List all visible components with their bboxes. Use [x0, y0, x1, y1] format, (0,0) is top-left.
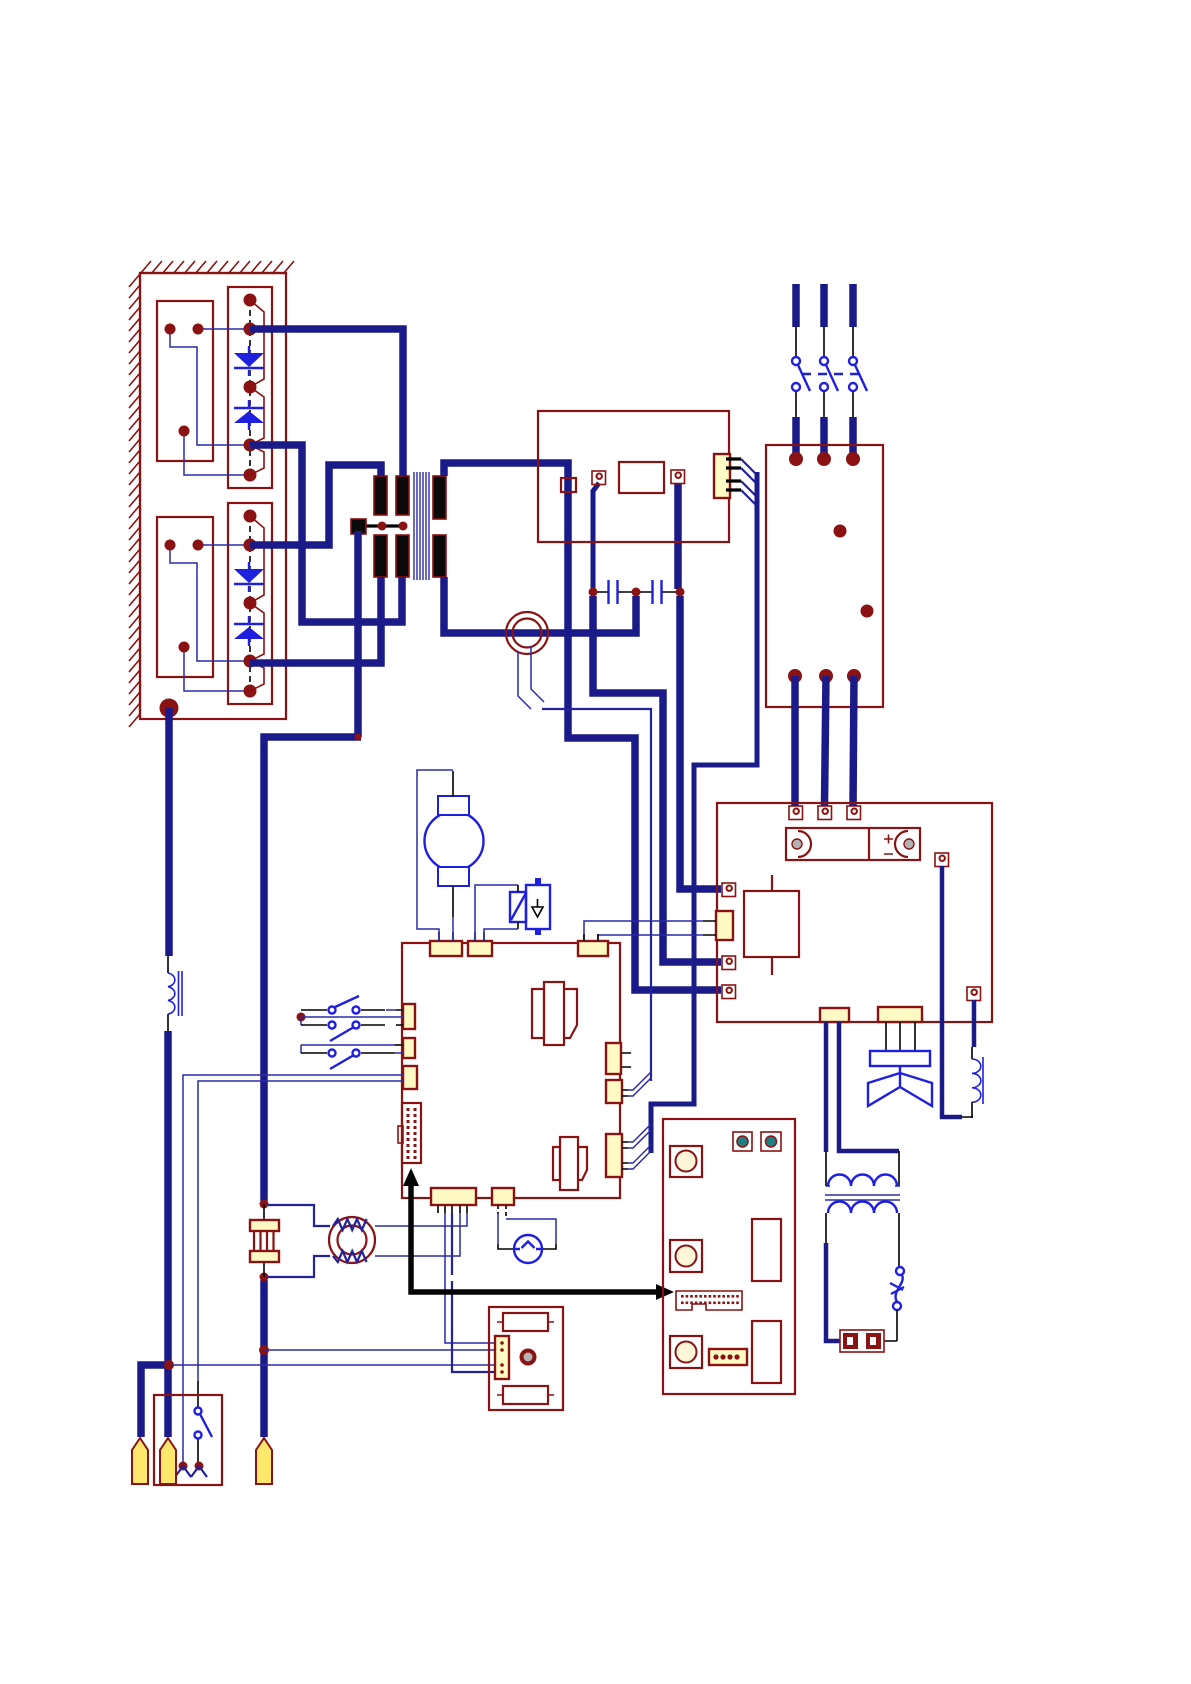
terminal lug 1	[132, 1438, 148, 1484]
A5 ribbon header	[676, 1291, 742, 1310]
Q1 linkage dashed	[802, 373, 866, 375]
button B2	[670, 1240, 702, 1272]
wire cap right down to P1	[680, 596, 721, 889]
A4 bottom component	[503, 1386, 548, 1404]
A2 bottom connector PB1	[820, 1008, 849, 1022]
A3 top connector T1	[430, 941, 462, 956]
fan wires from PB2	[886, 1022, 915, 1051]
wire from pin P in control box down	[593, 483, 599, 589]
A2 left connector	[716, 911, 733, 940]
wire assembly1 to primary w2 bottom	[250, 445, 402, 622]
A3 left connector L2	[403, 1038, 415, 1058]
capacitor C2	[653, 580, 662, 604]
wire assembly2 to primary w1 top	[250, 465, 381, 545]
A3 bottom connector B2	[492, 1188, 514, 1205]
A3 crystal component X1	[532, 982, 577, 1045]
T2 secondary coil	[828, 1202, 897, 1214]
A3 left connector L1	[403, 1004, 415, 1029]
wire second pin down	[674, 483, 682, 589]
K1 top terminals	[789, 452, 803, 466]
T2 core	[825, 1195, 900, 1200]
level sensor S1	[510, 892, 526, 922]
wire secondary top to control box and down	[444, 463, 721, 990]
plus minus labels	[884, 835, 893, 855]
pump motor M1	[425, 812, 484, 871]
lamp wires	[498, 1214, 556, 1244]
thermal switch S5	[896, 1267, 904, 1275]
A3 left connector L3	[403, 1066, 417, 1089]
terminal lug 3	[256, 1438, 272, 1484]
plug contacts	[179, 1462, 188, 1471]
thyristor module box 2 left	[157, 517, 213, 677]
A2 left pin P3	[722, 985, 736, 999]
thyristor module box 1 right	[228, 287, 272, 488]
A4 connector	[495, 1336, 509, 1379]
module 1 terminals dots	[165, 324, 176, 335]
bridge rectifier module	[786, 828, 920, 860]
A3 ribbon header	[402, 1103, 421, 1163]
wire cap left down to P2	[593, 596, 721, 962]
capacitor C1	[609, 580, 618, 604]
wire branch to terminal lug 1	[141, 1365, 172, 1437]
wire assembly2 to primary w1 bottom	[250, 577, 381, 663]
buzzer/lamp H1	[514, 1235, 542, 1263]
inductor L1	[167, 955, 169, 1031]
A2 right pin P4	[935, 853, 949, 867]
button B3	[670, 1336, 702, 1368]
switch S3 row2	[301, 1024, 403, 1026]
LED2	[761, 1132, 781, 1151]
L2 loop wires	[942, 866, 962, 1117]
Q1 pole x=796	[792, 284, 800, 327]
diode D2a	[248, 562, 250, 569]
black cathode line 2	[249, 516, 251, 691]
operator panel A5	[663, 1119, 795, 1394]
diode D1b	[248, 400, 250, 407]
thyristor module box 2 right	[228, 503, 272, 704]
transformer T1 primary bars	[374, 476, 387, 515]
central board A3	[402, 943, 620, 1198]
line filter F2	[250, 1220, 279, 1231]
current transformer CT rings	[506, 612, 548, 654]
harness bundle to operator panel	[651, 472, 757, 1153]
A5 display rect2	[752, 1321, 781, 1383]
transformer T1 centre tap bar	[358, 524, 403, 527]
LED1	[733, 1132, 752, 1151]
transformer T2 primary coil	[828, 1175, 897, 1187]
wire blue links 1	[170, 329, 250, 475]
M1 wires	[452, 771, 454, 917]
A5 display rect1	[752, 1219, 781, 1281]
A2 left pin P1	[722, 883, 736, 897]
wire blue links 2	[170, 545, 250, 691]
inner relay rect	[619, 462, 664, 493]
sensor board A4	[489, 1307, 563, 1410]
Q1 pole x=853	[849, 284, 857, 327]
A3 top connector TR	[578, 941, 608, 956]
A4 top component	[503, 1313, 548, 1331]
K1 bottom terminals	[788, 669, 802, 683]
wires B1 to heater	[375, 1213, 467, 1256]
capacitor chain black link	[593, 591, 680, 593]
door switch box	[154, 1395, 222, 1485]
door switch S6	[195, 1408, 202, 1415]
switch S4 row3	[301, 1052, 395, 1054]
CN harness fan-out	[741, 459, 757, 506]
black cathode line 1	[249, 300, 251, 475]
A2 relay rect	[744, 891, 799, 957]
Q1 pole x=824	[820, 284, 828, 327]
A3 right connector R1	[606, 1043, 621, 1074]
heater wires left	[268, 1205, 330, 1277]
terminal lug 2	[160, 1438, 176, 1484]
diode D1a	[248, 346, 250, 353]
PE big junction dot	[160, 699, 179, 718]
fan motor symbol	[870, 1051, 930, 1066]
thin wires from board A3 to A2 connector	[584, 921, 703, 941]
A3 top connector T2	[468, 941, 492, 956]
red bypass zigzag 2	[250, 516, 264, 691]
inductor L2	[972, 1059, 981, 1102]
T2 secondary leads	[826, 1213, 899, 1266]
filter black leads	[263, 1204, 265, 1277]
A5 4pin connector	[709, 1349, 747, 1365]
A3 crystal component X2	[553, 1137, 587, 1190]
pin P2	[671, 470, 685, 484]
wire secondary bottom through CT to caps	[444, 577, 636, 633]
fuse F1	[840, 1330, 884, 1352]
flow sensor S2	[526, 885, 550, 929]
contactor K1 box	[766, 445, 883, 707]
A4 LED	[520, 1349, 537, 1366]
A2 top pins	[789, 806, 803, 820]
wires K1 to rectifier board	[795, 676, 854, 806]
A3 right connector R3	[606, 1134, 622, 1177]
A2 left pin P2	[722, 956, 736, 970]
switch S2 row1	[301, 1009, 403, 1011]
wire assembly1 to primary w2 top	[250, 329, 403, 476]
plug line B	[198, 1081, 403, 1381]
A3 bottom connector B1	[431, 1188, 476, 1205]
ribbon cable arrow path	[411, 1183, 658, 1292]
ribbon connector CN	[714, 454, 730, 498]
K1 middle terminals	[834, 525, 847, 538]
chassis wall hatched ground	[129, 261, 294, 727]
wires PB1 to T2	[826, 1022, 899, 1152]
control unit box	[538, 411, 729, 542]
wire to A4 pin3	[172, 1364, 495, 1366]
heater zigzag elements	[333, 1219, 367, 1262]
A2 pin P5	[967, 987, 981, 1001]
A3 right connector R2	[606, 1080, 622, 1103]
transformer T1 core	[414, 472, 429, 580]
feedthrough terminal	[561, 478, 576, 492]
power board A2	[717, 803, 992, 1022]
heater ring	[329, 1217, 375, 1263]
wire PE dot down	[168, 708, 169, 1437]
red bypass zigzag 1	[250, 300, 264, 475]
pin P1	[592, 471, 606, 485]
junction dots bottom left	[164, 1360, 174, 1370]
wires B1 to A4	[445, 1213, 495, 1343]
button B1	[670, 1146, 702, 1177]
CN pins	[726, 459, 741, 490]
A2 bottom connector PB2	[878, 1007, 922, 1022]
S1 wires to T2 connector	[475, 885, 518, 941]
transformer T1 secondary bars	[433, 476, 446, 519]
wire centre tap down to terminal	[264, 531, 361, 1437]
wall outline box	[140, 273, 286, 719]
L2 wire pair	[301, 1045, 395, 1053]
diode D2b	[248, 616, 250, 623]
CT secondary pair wires	[518, 646, 544, 709]
junction + link	[297, 1013, 306, 1022]
wire to A4 pin2	[264, 1349, 495, 1351]
thyristor module box 1 left	[157, 301, 213, 461]
module 2 terminals dots	[165, 540, 176, 551]
filter dots	[260, 1200, 269, 1209]
plug line A	[183, 1075, 403, 1463]
